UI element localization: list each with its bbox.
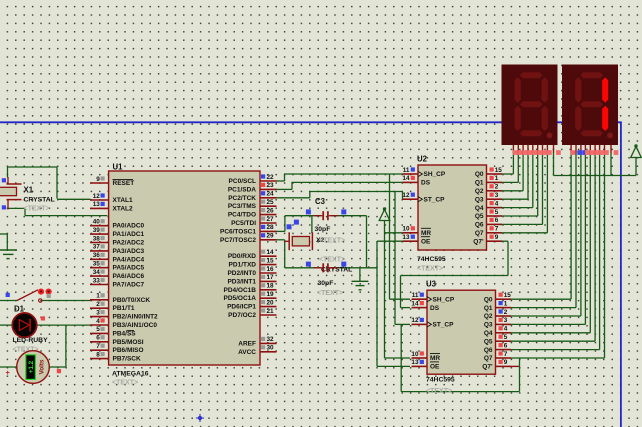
svg-text:11: 11 <box>412 292 419 299</box>
svg-text:7: 7 <box>504 351 508 358</box>
wire LED cathode to PB3 pin 4 <box>38 324 91 326</box>
wires U3 outputs Q0-Q7 to display 2 segments <box>511 298 571 300</box>
pin 3 Q3 <box>487 198 503 200</box>
pin 7 Q7 <box>496 357 512 359</box>
svg-text:ST_CP: ST_CP <box>433 322 455 329</box>
svg-text:12: 12 <box>402 192 410 199</box>
svg-text:12: 12 <box>411 317 419 324</box>
svg-text:15: 15 <box>504 292 512 299</box>
node red square PB3 net <box>41 316 45 320</box>
svg-text:PC0/SCL: PC0/SCL <box>229 178 256 185</box>
svg-text:74HC595: 74HC595 <box>417 256 446 263</box>
svg-text:DS: DS <box>430 305 440 312</box>
svg-text:PA4/ADC4: PA4/ADC4 <box>113 256 145 263</box>
svg-text:PA6/ADC6: PA6/ADC6 <box>113 273 145 280</box>
crystal X2 <box>292 237 309 246</box>
svg-text:5: 5 <box>495 209 499 216</box>
wire C4 to ground rail <box>331 267 377 269</box>
svg-text:1: 1 <box>495 175 499 182</box>
svg-text:13: 13 <box>411 359 419 366</box>
svg-text:10: 10 <box>411 351 419 358</box>
pin 32 <box>260 342 277 344</box>
pin 23 <box>260 188 277 190</box>
ground symbol top-left <box>0 249 17 251</box>
svg-text:Q6: Q6 <box>475 222 484 229</box>
display 1 pin stubs <box>512 145 514 153</box>
node grey square switch <box>47 294 51 298</box>
svg-text:U3: U3 <box>426 280 437 289</box>
pin 14 DS <box>403 181 419 183</box>
svg-text:C3: C3 <box>315 197 326 206</box>
svg-text:1: 1 <box>504 300 508 307</box>
svg-text:MR: MR <box>421 230 431 237</box>
origin marker <box>196 414 204 422</box>
svg-text:X1: X1 <box>24 186 34 195</box>
svg-text:PC5/TDI: PC5/TDI <box>231 220 256 227</box>
node blue square TOSC1 left <box>306 209 311 214</box>
node blue square crystal left <box>294 220 299 225</box>
svg-text:Q7': Q7' <box>482 364 493 371</box>
display 2 pin stubs <box>570 145 572 153</box>
svg-text:74HC595: 74HC595 <box>426 377 455 384</box>
svg-text:3: 3 <box>504 317 508 324</box>
svg-text:D1: D1 <box>14 305 25 314</box>
pin 17 <box>260 280 277 282</box>
pin 1 <box>90 299 109 301</box>
svg-text:PD6/ICP1: PD6/ICP1 <box>227 304 256 311</box>
wire crystal X2 right plate up to net A <box>311 216 313 233</box>
node blue square XTAL1 wire <box>2 178 6 182</box>
svg-text:SH_CP: SH_CP <box>424 171 446 178</box>
pin 4 Q4 <box>487 207 503 209</box>
wire net A to capacitor C3 right to ground <box>331 215 367 217</box>
svg-text:Q7': Q7' <box>473 238 484 245</box>
wire U3 Q7' loop <box>511 365 520 367</box>
pin 3 Q3 <box>496 323 512 325</box>
pin 6 Q6 <box>487 223 503 225</box>
svg-text:CRYSTAL: CRYSTAL <box>24 197 55 204</box>
svg-text:9: 9 <box>504 359 508 366</box>
pin 18 <box>260 289 277 291</box>
svg-text:36: 36 <box>93 252 101 259</box>
wire voltmeter plus terminal <box>0 366 17 368</box>
svg-text:2: 2 <box>495 184 499 191</box>
pin 40 <box>90 225 109 227</box>
svg-text:Q6: Q6 <box>484 347 493 354</box>
svg-text:<TEXT>: <TEXT> <box>317 290 343 297</box>
wire ST_CP net down to U3 pin 12 <box>394 192 396 325</box>
wire crystal X1 top to XTAL1 <box>8 166 58 168</box>
pin 15 <box>260 264 277 266</box>
display 2 state squares <box>571 150 576 155</box>
svg-text:Q7: Q7 <box>484 355 493 362</box>
pin 36 <box>90 258 109 260</box>
svg-text:OE: OE <box>430 364 440 371</box>
capacitor C4 <box>322 263 324 272</box>
pin 2 <box>90 307 109 309</box>
svg-text:1: 1 <box>96 293 100 300</box>
svg-text:PA3/ADC3: PA3/ADC3 <box>113 248 145 255</box>
svg-text:7: 7 <box>96 343 100 350</box>
svg-text:27: 27 <box>267 216 275 223</box>
svg-text:PB4/SS: PB4/SS <box>113 330 137 337</box>
node blue square TOSC1 right <box>341 209 346 214</box>
svg-text:3: 3 <box>495 192 499 199</box>
svg-text:16: 16 <box>267 266 275 273</box>
svg-text:Q2: Q2 <box>484 313 493 320</box>
svg-text:PC4/TDO: PC4/TDO <box>228 212 256 219</box>
wire SH_CP net down to U3 pin 11 <box>389 174 391 299</box>
wire display common anodes to VCC arrow <box>553 152 555 176</box>
pin 4 Q4 <box>496 332 512 334</box>
svg-text:6: 6 <box>495 217 499 224</box>
crystal X1 <box>0 187 17 195</box>
svg-text:34: 34 <box>93 269 101 276</box>
svg-text:2: 2 <box>504 309 508 316</box>
wire U2 Q7' cascade to U3 DS pin 14 <box>502 240 508 242</box>
pin 15 Q0 <box>487 173 503 175</box>
node blue square switch wire <box>6 293 10 297</box>
pin 10 MR <box>412 357 428 359</box>
switch SW1 <box>17 290 38 301</box>
pin 14 DS <box>412 307 428 309</box>
pin 28 <box>260 230 277 232</box>
pin 6 <box>90 341 109 343</box>
svg-text:PD4/OC1B: PD4/OC1B <box>223 287 256 294</box>
svg-text:MR: MR <box>430 355 440 362</box>
wire crystal X1 bottom to XTAL2 <box>8 207 25 209</box>
svg-text:PB7/SCK: PB7/SCK <box>113 356 141 363</box>
svg-text:35: 35 <box>93 261 101 268</box>
pin 12 ST_CP <box>412 323 428 325</box>
svg-text:4: 4 <box>504 326 508 333</box>
svg-text:PA0/ADC0: PA0/ADC0 <box>113 223 145 230</box>
wire ground stub top-left <box>0 233 7 235</box>
svg-text:15: 15 <box>495 167 503 174</box>
svg-text:ATMEGA16: ATMEGA16 <box>112 371 149 378</box>
svg-text:33: 33 <box>93 277 101 284</box>
svg-text:2: 2 <box>96 301 100 308</box>
svg-text:4: 4 <box>96 318 100 325</box>
svg-text:29: 29 <box>267 233 275 240</box>
power VCC arrow middle <box>379 210 390 221</box>
ground symbol middle <box>359 268 361 282</box>
pin 34 <box>90 275 109 277</box>
pin 30 <box>260 351 277 353</box>
pin 9 Q7' <box>487 240 503 242</box>
pin 29 <box>260 239 277 241</box>
svg-text:5: 5 <box>504 334 508 341</box>
pin 11 SH_CP <box>412 298 428 300</box>
svg-text:30: 30 <box>267 345 275 352</box>
pin 25 <box>260 205 277 207</box>
svg-text:+1.2: +1.2 <box>28 360 35 373</box>
svg-text:PD1/TXD: PD1/TXD <box>229 262 257 269</box>
wire PC2/TCK to U2 ST_CP net <box>276 197 310 199</box>
svg-text:DS: DS <box>421 180 431 187</box>
svg-text:Q0: Q0 <box>484 296 493 303</box>
svg-text:PB5/MOSI: PB5/MOSI <box>113 339 144 346</box>
node blue square XTAL2 wire <box>2 205 6 209</box>
svg-text:23: 23 <box>267 182 275 189</box>
svg-text:10: 10 <box>402 226 410 233</box>
svg-text:PD5/OC1A: PD5/OC1A <box>223 295 256 302</box>
node blue square pin28 wire <box>287 224 292 229</box>
svg-text:13: 13 <box>402 234 410 241</box>
svg-text:U2: U2 <box>417 155 428 164</box>
blue border line vertical right <box>620 122 622 427</box>
wire PC0/SCL to U2 SH_CP net SCK <box>276 180 285 182</box>
node red square voltmeter <box>57 369 61 373</box>
svg-text:PB6/MISO: PB6/MISO <box>113 347 144 354</box>
svg-text:Q7: Q7 <box>475 230 484 237</box>
seven segment display body <box>502 65 558 146</box>
svg-text:PD7/OC2: PD7/OC2 <box>228 312 256 319</box>
voltmeter instrument <box>17 351 50 384</box>
svg-text:Q1: Q1 <box>484 305 493 312</box>
svg-text:PB3/AIN1/OC0: PB3/AIN1/OC0 <box>113 322 158 329</box>
capacitor C3 <box>322 211 324 220</box>
svg-text:OE: OE <box>421 238 431 245</box>
LED D1 <box>12 313 36 337</box>
node blue square TOSC2 right <box>341 262 346 267</box>
svg-text:15: 15 <box>267 257 275 264</box>
svg-text:14: 14 <box>411 300 419 307</box>
svg-text:PA5/ADC5: PA5/ADC5 <box>113 265 145 272</box>
pin 2 Q2 <box>487 190 503 192</box>
svg-text:XTAL2: XTAL2 <box>113 205 133 212</box>
svg-text:30pF: 30pF <box>318 280 334 287</box>
wire OE net U2 pin 13 to U3 pin 13 to ground <box>377 240 403 242</box>
pin 5 Q5 <box>487 215 503 217</box>
svg-text:XTAL1: XTAL1 <box>113 197 133 204</box>
pin 13 OE <box>412 365 428 367</box>
pin 21 <box>260 314 277 316</box>
svg-text:Q1: Q1 <box>475 180 484 187</box>
svg-text:PC1/SDA: PC1/SDA <box>228 186 256 193</box>
svg-text:ST_CP: ST_CP <box>424 196 446 203</box>
pin 13 OE <box>403 240 419 242</box>
svg-text:9: 9 <box>495 234 499 241</box>
svg-text:Q5: Q5 <box>484 338 493 345</box>
pin 14 <box>260 255 277 257</box>
pin 24 <box>260 197 277 199</box>
pin 1 Q1 <box>487 181 503 183</box>
wire PC7/TOSC2 to crystal net B <box>276 239 285 241</box>
svg-text:40: 40 <box>93 219 101 226</box>
svg-text:26: 26 <box>267 207 275 214</box>
svg-text:<TEXT>: <TEXT> <box>112 380 138 387</box>
svg-text:Q4: Q4 <box>484 330 493 337</box>
pin 9 Q7' <box>496 365 512 367</box>
svg-text:U1: U1 <box>113 163 124 172</box>
pin 13 <box>90 207 109 209</box>
pin 12 ST_CP <box>403 198 419 200</box>
svg-text:8: 8 <box>96 351 100 358</box>
pin 26 <box>260 214 277 216</box>
svg-text:PB2/AIN0/INT2: PB2/AIN0/INT2 <box>113 314 159 321</box>
svg-text:22: 22 <box>267 174 275 181</box>
svg-text:Q3: Q3 <box>475 196 484 203</box>
svg-text:Q0: Q0 <box>475 171 484 178</box>
svg-text:38: 38 <box>93 235 101 242</box>
display 1 state squares <box>513 150 518 155</box>
pin 35 <box>90 267 109 269</box>
pin 37 <box>90 250 109 252</box>
pin 20 <box>260 306 277 308</box>
pin 39 <box>90 233 109 235</box>
svg-text:LED-RUBY: LED-RUBY <box>13 337 49 344</box>
svg-text:PC2/TCK: PC2/TCK <box>228 195 256 202</box>
svg-text:37: 37 <box>93 244 101 251</box>
svg-text:Q3: Q3 <box>484 322 493 329</box>
pin 11 SH_CP <box>403 173 419 175</box>
svg-text:39: 39 <box>93 227 101 234</box>
svg-text:5: 5 <box>96 326 100 333</box>
microcontroller U1 ATMEGA16 body <box>109 171 260 365</box>
wires U2 outputs Q0-Q7 to display 1 segments <box>502 173 513 175</box>
pin 33 <box>90 284 109 286</box>
svg-text:Q4: Q4 <box>475 205 484 212</box>
svg-text:6: 6 <box>96 335 100 342</box>
svg-text:4: 4 <box>495 200 499 207</box>
svg-text:PD2/INT0: PD2/INT0 <box>227 270 256 277</box>
svg-text:<TEXT>: <TEXT> <box>24 206 50 213</box>
svg-text:AVCC: AVCC <box>238 349 256 356</box>
pin 22 <box>260 180 277 182</box>
wire net B to capacitor C4 <box>285 267 321 269</box>
svg-text:<TEXT>: <TEXT> <box>417 266 443 273</box>
svg-text:PA1/ADC1: PA1/ADC1 <box>113 231 145 238</box>
svg-text:Q5: Q5 <box>475 213 484 220</box>
svg-text:<TEXT>: <TEXT> <box>319 257 345 264</box>
svg-text:+: + <box>6 368 11 377</box>
svg-text:32: 32 <box>267 336 275 343</box>
svg-text:3: 3 <box>96 309 100 316</box>
svg-text:7: 7 <box>495 226 499 233</box>
svg-text:<TEXT>: <TEXT> <box>319 238 345 245</box>
svg-text:18: 18 <box>267 283 275 290</box>
pin 4 <box>90 324 109 326</box>
svg-text:Volts: Volts <box>39 359 46 374</box>
wire VCC to U2 MR pin 10 and U3 MR pin 10 <box>384 221 386 359</box>
svg-text:25: 25 <box>267 199 275 206</box>
svg-text:14: 14 <box>402 175 410 182</box>
pin 10 MR <box>403 232 419 234</box>
wire junction LED net to voltmeter <box>65 325 67 367</box>
wire LED anode from left edge <box>0 324 12 326</box>
wire PC1/SDA to U2 DS net <box>276 188 292 190</box>
svg-text:PA7/ADC7: PA7/ADC7 <box>113 282 145 289</box>
pin 8 <box>90 358 109 360</box>
power VCC arrow right <box>631 147 642 158</box>
pin 5 Q5 <box>496 340 512 342</box>
svg-text:14: 14 <box>267 249 275 256</box>
svg-text:9: 9 <box>96 176 100 183</box>
shift register U3 74HC595 body <box>427 290 496 374</box>
svg-text:17: 17 <box>267 274 275 281</box>
svg-text:24: 24 <box>267 191 275 198</box>
pin 15 Q0 <box>496 298 512 300</box>
svg-text:PA2/ADC2: PA2/ADC2 <box>113 240 145 247</box>
seven segment display body <box>562 65 618 146</box>
pin 7 Q7 <box>487 232 503 234</box>
pin 6 Q6 <box>496 349 512 351</box>
svg-text:13: 13 <box>93 201 101 208</box>
blue border line horizontal <box>0 121 622 123</box>
pin 9 <box>90 182 109 184</box>
svg-text:20: 20 <box>267 299 275 306</box>
pin 1 Q1 <box>496 307 512 309</box>
svg-text:SH_CP: SH_CP <box>433 296 455 303</box>
svg-text:12: 12 <box>93 193 101 200</box>
svg-text:PC3/TMS: PC3/TMS <box>228 203 257 210</box>
svg-text:6: 6 <box>504 342 508 349</box>
wire PC6/TOSC1 to crystal net A <box>276 230 285 232</box>
shift register U2 74HC595 body <box>418 165 487 250</box>
svg-text:28: 28 <box>267 224 275 231</box>
svg-text:19: 19 <box>267 291 275 298</box>
svg-text:PC7/TOSC2: PC7/TOSC2 <box>220 237 256 244</box>
svg-text:30pF: 30pF <box>315 226 331 233</box>
svg-text:RESET: RESET <box>113 180 135 187</box>
svg-text:AREF: AREF <box>238 340 256 347</box>
pin 3 <box>90 316 109 318</box>
svg-text:PB1/T1: PB1/T1 <box>113 305 135 312</box>
node blue square TOSC2 left <box>306 262 311 267</box>
pin 5 <box>90 332 109 334</box>
svg-text:PB0/T0/XCK: PB0/T0/XCK <box>113 297 151 304</box>
svg-text:PD3/INT1: PD3/INT1 <box>227 278 256 285</box>
pin 38 <box>90 242 109 244</box>
svg-text:11: 11 <box>403 167 410 174</box>
svg-text:21: 21 <box>267 308 275 315</box>
pin 2 Q2 <box>496 315 512 317</box>
svg-text:PC6/TOSC1: PC6/TOSC1 <box>220 228 256 235</box>
pin 12 <box>90 199 109 201</box>
pin 7 <box>90 349 109 351</box>
svg-text:Q2: Q2 <box>475 188 484 195</box>
pin 16 <box>260 272 277 274</box>
svg-text:PD0/RXD: PD0/RXD <box>228 253 256 260</box>
pin 19 <box>260 297 277 299</box>
svg-text:<TEXT>: <TEXT> <box>426 388 452 395</box>
wire switch to PB0 pin 1 <box>0 300 17 302</box>
wire voltmeter to junction <box>50 366 66 368</box>
pin 27 <box>260 222 277 224</box>
